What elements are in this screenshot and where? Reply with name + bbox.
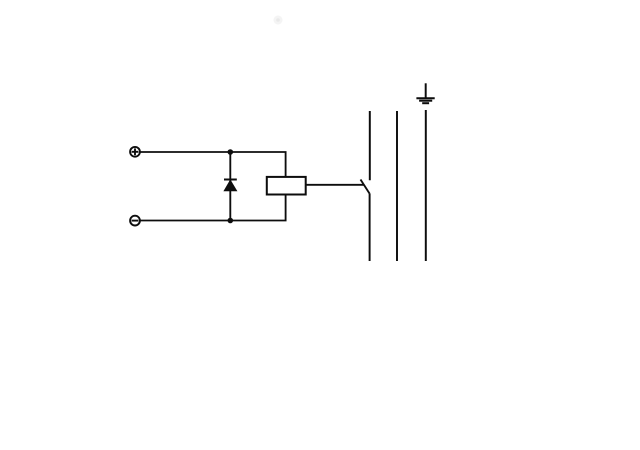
- wire actuator to contact: [306, 184, 364, 186]
- node junction bottom: [228, 218, 234, 224]
- relay coil K1: [267, 177, 306, 195]
- wire diode branch: [229, 152, 231, 221]
- wire contact line 1 lower: [369, 193, 371, 261]
- wire line 2: [396, 111, 398, 261]
- scan smudge artifact: [274, 16, 283, 25]
- node junction top: [228, 149, 234, 155]
- terminal + (positive input): [130, 147, 140, 157]
- terminal - (negative input): [130, 216, 140, 226]
- wire top rail: [141, 152, 286, 177]
- wire bottom rail: [141, 194, 286, 220]
- diode D1 (flyback, cathode up): [224, 180, 237, 191]
- wire line 3: [425, 110, 427, 261]
- switch blade S1: [361, 180, 370, 194]
- ground: [416, 83, 434, 103]
- wire contact line 1 upper: [369, 111, 371, 180]
